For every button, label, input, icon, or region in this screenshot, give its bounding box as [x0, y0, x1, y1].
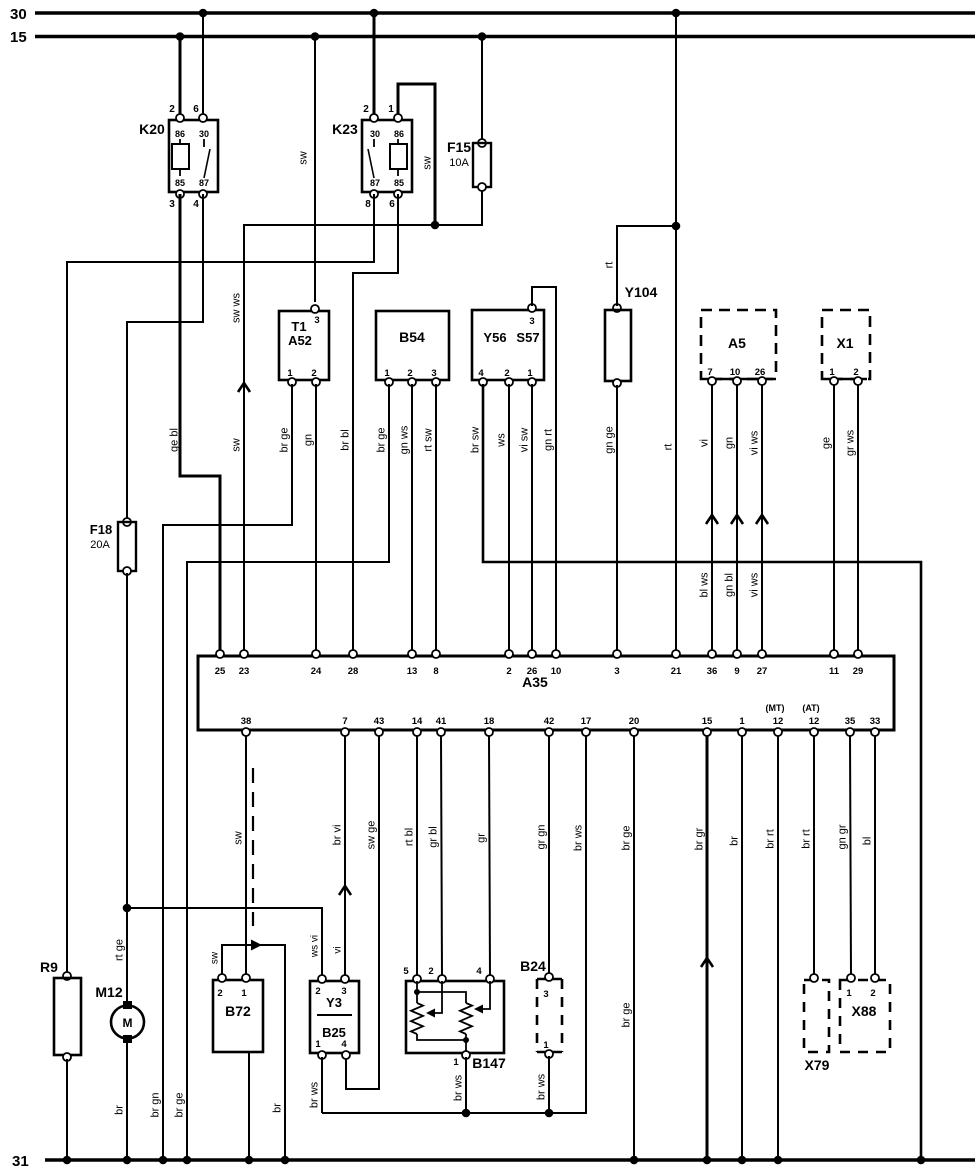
motor M12: [123, 1001, 132, 1009]
svg-text:2: 2: [315, 986, 320, 997]
svg-text:sw: sw: [298, 151, 310, 165]
svg-text:gn bl: gn bl: [724, 573, 736, 597]
B54 pin 2 terminal: [408, 378, 416, 386]
B24 pin 3 terminal: [545, 973, 553, 981]
X1 pin 1 terminal: [830, 377, 838, 385]
relay K20 pin 2 terminal: [176, 114, 184, 122]
svg-text:8: 8: [365, 199, 371, 210]
A35 bottom pin 35: [846, 728, 854, 736]
A35 bottom pin 7: [341, 728, 349, 736]
component Y3 B25 box: [310, 981, 359, 1053]
A35 top pin 24: [312, 650, 320, 658]
wire bus30 to K23 pin 2: [373, 13, 376, 118]
svg-text:br sw: br sw: [470, 427, 482, 453]
svg-text:3: 3: [341, 986, 346, 997]
wire bus30 to K20 pin 6: [202, 13, 204, 118]
svg-text:F18: F18: [90, 522, 112, 537]
Y3 pin 3 terminal: [341, 975, 349, 983]
svg-text:vi ws: vi ws: [749, 572, 761, 597]
B147 pin 4 wiper arrow: [482, 981, 490, 1009]
svg-text:2: 2: [407, 368, 412, 379]
svg-text:ws: ws: [496, 433, 508, 448]
wire br ge B54 pin 1 to bus 31: [187, 384, 389, 1160]
wire ws Y56 pin 2 to A35 pin 2: [508, 384, 510, 653]
sensor B72 box: [213, 980, 263, 1052]
svg-text:B25: B25: [322, 1025, 346, 1040]
wire vi / bl ws A5 pin 7 to A35 pin 36: [711, 385, 713, 653]
svg-text:B72: B72: [225, 1003, 251, 1019]
A35 bottom pin 12: [774, 728, 782, 736]
svg-text:br gr: br gr: [694, 827, 706, 850]
svg-text:br: br: [114, 1105, 126, 1115]
svg-text:br ws: br ws: [309, 1081, 321, 1108]
svg-text:rt ge: rt ge: [114, 939, 126, 961]
svg-text:30: 30: [370, 129, 380, 139]
wire node sw to A35 pin 23: [244, 225, 435, 653]
svg-text:2: 2: [169, 104, 175, 115]
svg-text:43: 43: [374, 716, 385, 727]
B24 pin 1 terminal: [545, 1050, 553, 1058]
connector X88 box: [840, 980, 890, 1052]
arrow up on br gr wire: [701, 958, 713, 967]
svg-text:gr bl: gr bl: [428, 826, 440, 847]
wire br rt A35 pin 12MT to bus 31: [777, 736, 779, 1160]
B147 left resistor: [411, 1003, 423, 1034]
wire gn ge Y104 to A35 pin 3: [616, 385, 618, 653]
svg-text:85: 85: [394, 178, 404, 188]
svg-text:1: 1: [543, 1040, 549, 1051]
A5 pin 26 terminal: [758, 377, 766, 385]
svg-text:ge bl: ge bl: [169, 428, 181, 452]
svg-text:br ws: br ws: [536, 1073, 548, 1100]
arrow up on vi ws wire: [756, 515, 768, 524]
svg-text:2: 2: [428, 966, 433, 977]
svg-text:14: 14: [412, 716, 423, 727]
svg-text:41: 41: [436, 716, 447, 727]
B147 pin 1 terminal: [462, 1051, 470, 1059]
wire rt Y104 top to node rt: [617, 226, 676, 306]
svg-text:1: 1: [453, 1057, 459, 1068]
svg-text:br ws: br ws: [453, 1074, 465, 1101]
wire br ws B147 pin 1 to ground net: [465, 1057, 467, 1113]
svg-text:29: 29: [853, 666, 864, 677]
A35 bottom pin 14: [413, 728, 421, 736]
svg-text:1: 1: [388, 104, 394, 115]
A35 top pin 8: [432, 650, 440, 658]
T1 pin 3 terminal: [311, 305, 319, 313]
svg-text:1: 1: [829, 367, 835, 378]
svg-text:10A: 10A: [449, 157, 469, 169]
wire K23 pin 1 jog to node sw: [398, 84, 435, 225]
connector X79 box: [804, 980, 829, 1052]
svg-text:R9: R9: [40, 959, 58, 975]
svg-text:A52: A52: [288, 333, 312, 348]
B147 resistor bottoms join: [417, 1034, 466, 1040]
svg-text:3: 3: [529, 316, 534, 327]
relay K23 coil: [397, 139, 399, 144]
svg-text:M: M: [123, 1016, 133, 1030]
node F18/M12 junction: [123, 904, 132, 913]
wire sw bus15 to T1 pin 3: [314, 37, 316, 303]
sensor B24 box: [537, 978, 562, 981]
svg-text:2: 2: [363, 104, 369, 115]
A35 top pin 29: [854, 650, 862, 658]
svg-text:sw: sw: [210, 951, 221, 964]
svg-text:86: 86: [175, 129, 185, 139]
B147 right resistor: [460, 1003, 472, 1034]
svg-text:K20: K20: [139, 121, 165, 137]
svg-text:1: 1: [241, 988, 247, 999]
svg-text:gn ws: gn ws: [399, 425, 411, 454]
svg-text:36: 36: [707, 666, 718, 677]
svg-text:gr ws: gr ws: [845, 429, 857, 456]
svg-text:S57: S57: [516, 330, 539, 345]
svg-text:(AT): (AT): [802, 703, 819, 713]
svg-text:27: 27: [757, 666, 768, 677]
wire br ws Y3 pin 1 to ground net: [321, 1057, 323, 1113]
wire rt bl A35 pin 14 to B147 pin 5: [416, 736, 418, 977]
svg-text:2: 2: [311, 368, 316, 379]
svg-text:28: 28: [348, 666, 359, 677]
wire gr ws X1 pin 2 to A35 pin 29: [857, 385, 859, 653]
svg-text:10: 10: [551, 666, 562, 677]
wire bus15 to K20 pin 2: [179, 37, 182, 119]
svg-text:2: 2: [506, 666, 511, 677]
svg-text:gn rt: gn rt: [543, 429, 555, 451]
svg-text:8: 8: [433, 666, 438, 677]
svg-text:X79: X79: [805, 1057, 830, 1073]
X1 pin 2 terminal: [854, 377, 862, 385]
B147 internal wire to right resistor: [417, 992, 466, 1003]
svg-text:gr: gr: [476, 833, 488, 843]
svg-text:br ge: br ge: [174, 1092, 186, 1117]
relay K23 pin 2 terminal: [370, 114, 378, 122]
A35 bottom pin 18: [485, 728, 493, 736]
svg-text:br bl: br bl: [340, 429, 352, 450]
svg-text:12: 12: [809, 716, 820, 727]
wire vi sw Y56 pin 1 to A35 pin 26: [531, 384, 533, 653]
fuse F18: [123, 518, 131, 526]
wire K20 pin 4 to fuse F18: [127, 194, 203, 520]
wire gn / gn bl A5 pin 10 to A35 pin 9: [736, 385, 738, 653]
A35 top pin 9: [733, 650, 741, 658]
wire sw ge A35 pin 43 to Y3 pin 4: [346, 736, 379, 1089]
A35 top pin 23: [240, 650, 248, 658]
wire gr bl A35 pin 41 to B147 pin 2: [441, 736, 442, 977]
wire gr gn A35 pin 42 to B24 pin 3: [548, 736, 550, 977]
wire B72 pin 2 to bus 31: [222, 945, 285, 1160]
wire F15 bottom to node sw: [435, 189, 482, 225]
svg-text:gn ge: gn ge: [604, 426, 616, 454]
relay K20 switch contact: [203, 139, 205, 147]
wire gn T1 pin 2 to A35 pin 24: [315, 384, 317, 653]
svg-text:24: 24: [311, 666, 322, 677]
svg-text:gn gr: gn gr: [837, 824, 849, 849]
svg-text:21: 21: [671, 666, 682, 677]
svg-text:br ge: br ge: [376, 427, 388, 452]
A35 top pin 21: [672, 650, 680, 658]
B72 pin 1 terminal: [242, 974, 250, 982]
A5 pin 7 terminal: [708, 377, 716, 385]
svg-text:vi: vi: [699, 439, 711, 447]
A35 top pin 25: [216, 650, 224, 658]
svg-text:3: 3: [169, 199, 175, 210]
svg-text:br rt: br rt: [801, 829, 813, 849]
svg-text:13: 13: [407, 666, 418, 677]
relay K23 pin 6 terminal: [394, 190, 402, 198]
fuse F15: [478, 139, 486, 147]
svg-text:1: 1: [384, 368, 390, 379]
svg-text:42: 42: [544, 716, 555, 727]
svg-text:rt bl: rt bl: [404, 828, 416, 846]
svg-text:sw: sw: [422, 156, 434, 170]
svg-text:A5: A5: [728, 335, 746, 351]
A35 bottom pin 42: [545, 728, 553, 736]
A35 bottom pin 20: [630, 728, 638, 736]
svg-text:X1: X1: [836, 335, 853, 351]
svg-text:3: 3: [614, 666, 619, 677]
svg-text:bl: bl: [862, 837, 874, 846]
wire bus15 to F15: [481, 37, 483, 142]
svg-text:6: 6: [193, 104, 199, 115]
arrow up on bl ws wire: [706, 515, 718, 524]
svg-text:br ws: br ws: [573, 824, 585, 851]
svg-text:1: 1: [739, 716, 745, 727]
component X1 box: [822, 310, 870, 379]
wire gn ws B54 pin 2 to A35 pin 13: [411, 384, 413, 653]
svg-text:Y56: Y56: [483, 330, 506, 345]
wire br ws B24 pin 1 to ground net: [548, 1056, 550, 1113]
T1 pin 2 terminal: [312, 378, 320, 386]
wire gr A35 pin 18 to B147 pin 4: [489, 736, 490, 977]
svg-text:F15: F15: [447, 139, 471, 155]
A5 pin 10 terminal: [733, 377, 741, 385]
svg-text:3: 3: [431, 368, 436, 379]
wire br vi A35 pin 7 to Y3 pin 3: [344, 736, 346, 977]
Y56 pin 1 terminal: [528, 378, 536, 386]
svg-text:1: 1: [846, 988, 852, 999]
svg-text:38: 38: [241, 716, 252, 727]
svg-text:23: 23: [239, 666, 250, 677]
svg-text:1: 1: [527, 368, 533, 379]
svg-text:sw ws: sw ws: [231, 293, 243, 323]
svg-text:rt sw: rt sw: [423, 428, 435, 451]
wire br ge T1 pin 1 to bus 31: [163, 384, 292, 1160]
svg-text:30: 30: [199, 129, 209, 139]
svg-text:2: 2: [217, 988, 222, 999]
svg-text:B24: B24: [520, 958, 546, 974]
wire ws vi node to Y3 pin 2: [127, 908, 322, 977]
svg-text:1: 1: [315, 1039, 321, 1050]
X88 pin 2 terminal: [871, 974, 879, 982]
svg-text:87: 87: [370, 178, 380, 188]
Y3 pin 2 terminal: [318, 975, 326, 983]
svg-text:rt: rt: [663, 444, 675, 451]
arrow up on br vi wire: [339, 886, 351, 895]
wire br ws A35 pin 17 to ground net: [322, 736, 586, 1113]
Y3 pin 1 terminal: [318, 1051, 326, 1059]
svg-text:17: 17: [581, 716, 592, 727]
svg-text:M12: M12: [95, 984, 122, 1000]
svg-text:26: 26: [527, 666, 538, 677]
svg-text:5: 5: [403, 966, 409, 977]
node rt junction: [672, 222, 681, 231]
wire gn gr A35 pin 35 to X88 pin 1: [850, 736, 851, 976]
wire br A35 pin 1 to bus 31: [741, 736, 743, 1160]
control unit A35 box: [198, 656, 894, 730]
svg-text:vi ws: vi ws: [749, 430, 761, 455]
svg-text:10: 10: [730, 367, 741, 378]
svg-text:4: 4: [193, 199, 199, 210]
arrow up on sw wire: [238, 383, 250, 392]
svg-text:2: 2: [870, 988, 875, 999]
relay K23 box: [362, 120, 412, 192]
wire B72 bottom to bus 31: [248, 1052, 250, 1160]
svg-text:2: 2: [853, 367, 858, 378]
A35 bottom pin 43: [375, 728, 383, 736]
B147 pin 5 terminal: [413, 975, 421, 983]
component Y104 body: [613, 304, 621, 312]
A35 top pin 13: [408, 650, 416, 658]
component A5 box: [701, 310, 776, 379]
svg-text:(MT): (MT): [766, 703, 785, 713]
svg-text:B147: B147: [472, 1055, 506, 1071]
svg-text:gn: gn: [724, 437, 736, 449]
arrow up on gn bl wire: [731, 515, 743, 524]
svg-text:12: 12: [773, 716, 784, 727]
wire ge X1 pin 1 to A35 pin 11: [833, 385, 835, 653]
svg-text:4: 4: [478, 368, 484, 379]
svg-text:K23: K23: [332, 121, 358, 137]
svg-text:B54: B54: [399, 329, 425, 345]
bus 31: [45, 1158, 975, 1161]
wire br M12 to bus 31: [126, 1043, 128, 1160]
shield dashed line of sw wire: [252, 768, 254, 926]
B54 pin 3 terminal: [432, 378, 440, 386]
svg-text:br: br: [729, 836, 741, 846]
svg-text:4: 4: [341, 1039, 347, 1050]
T1 pin 1 terminal: [288, 378, 296, 386]
wire rt bus30 to A35 pin 21: [675, 13, 677, 653]
svg-text:br: br: [272, 1103, 284, 1113]
wire K23 pin 8 to R9: [67, 194, 374, 974]
relay K20 coil: [179, 139, 181, 144]
wire ge bl K20 pin 3 to A35 pin 25: [180, 194, 220, 653]
svg-text:br ge: br ge: [621, 825, 633, 850]
A35 bottom pin 38: [242, 728, 250, 736]
svg-text:9: 9: [734, 666, 739, 677]
B147 pin 2 terminal: [438, 975, 446, 983]
svg-text:vi sw: vi sw: [519, 428, 531, 453]
B147 internal node: [416, 981, 418, 1003]
A35 bottom pin 17: [582, 728, 590, 736]
relay K23 switch contact: [373, 139, 375, 147]
svg-text:26: 26: [755, 367, 766, 378]
wire bl A35 pin 33 to X88 pin 2: [874, 736, 876, 976]
wire sw A35 pin 38 to B72 pin 1: [245, 736, 247, 977]
component B54 box: [376, 311, 449, 380]
svg-text:86: 86: [394, 129, 404, 139]
component Y56 S57 box: [472, 310, 544, 380]
svg-text:vi: vi: [333, 946, 344, 953]
relay K23 pin 1 terminal: [394, 114, 402, 122]
svg-text:bl ws: bl ws: [699, 572, 711, 598]
svg-text:3: 3: [314, 315, 319, 326]
svg-text:br gn: br gn: [150, 1092, 162, 1117]
svg-text:87: 87: [199, 178, 209, 188]
svg-text:br rt: br rt: [765, 829, 777, 849]
relay K20 pin 4 terminal: [199, 190, 207, 198]
wire br gr A35 pin 15 to bus 31: [706, 736, 709, 1160]
svg-text:25: 25: [215, 666, 226, 677]
svg-text:sw: sw: [233, 831, 245, 845]
node sw junction: [431, 221, 440, 230]
wire gn rt S57 pin 3 to A35 pin 10: [532, 287, 556, 653]
A35 top pin 36: [708, 650, 716, 658]
svg-text:br ge: br ge: [279, 427, 291, 452]
wire F18 to M12: [126, 573, 128, 1003]
svg-text:7: 7: [342, 716, 347, 727]
svg-text:85: 85: [175, 178, 185, 188]
svg-text:gn: gn: [303, 434, 315, 446]
B147 pin 2 wiper arrow: [434, 981, 442, 1013]
svg-text:6: 6: [389, 199, 395, 210]
svg-text:33: 33: [870, 716, 881, 727]
svg-text:gr gn: gr gn: [536, 824, 548, 849]
svg-text:4: 4: [476, 966, 482, 977]
wire br bl K23 pin 6 to A35 pin 28: [353, 194, 398, 653]
X79 terminal: [810, 974, 818, 982]
svg-text:br ge: br ge: [621, 1002, 633, 1027]
A35 bottom pin 15: [703, 728, 711, 736]
A35 bottom pin 41: [437, 728, 445, 736]
svg-text:Y104: Y104: [625, 284, 658, 300]
B72 pin 2 terminal: [218, 974, 226, 982]
svg-text:11: 11: [829, 666, 840, 677]
Y56 pin 4 terminal: [479, 378, 487, 386]
svg-text:20A: 20A: [90, 539, 110, 551]
B54 pin 1 terminal: [385, 378, 393, 386]
A35 top pin 3: [613, 650, 621, 658]
svg-text:3: 3: [543, 989, 548, 1000]
shield arrow into ground jog: [251, 940, 262, 951]
A35 top pin 28: [349, 650, 357, 658]
A35 top pin 2: [505, 650, 513, 658]
Y3 pin 4 terminal: [342, 1051, 350, 1059]
B147 pin 4 terminal: [486, 975, 494, 983]
svg-text:ge: ge: [821, 437, 833, 449]
Y56 pin 3 terminal: [528, 304, 536, 312]
A35 top pin 11: [830, 650, 838, 658]
wire rt sw B54 pin 3 to A35 pin 8: [435, 384, 437, 653]
relay K20 box: [169, 120, 218, 192]
A35 top pin 10: [552, 650, 560, 658]
svg-text:18: 18: [484, 716, 495, 727]
svg-text:35: 35: [845, 716, 856, 727]
bus 15: [35, 35, 975, 38]
wire br rt A35 pin 12AT to X79: [813, 736, 815, 976]
svg-text:ws vi: ws vi: [310, 935, 321, 958]
wire br sw Y56 pin 4 to bus 31: [483, 384, 921, 1160]
svg-text:7: 7: [707, 367, 712, 378]
resistor R9: [63, 972, 71, 980]
A35 top pin 27: [758, 650, 766, 658]
svg-text:2: 2: [504, 368, 509, 379]
svg-text:1: 1: [287, 368, 293, 379]
svg-text:rt: rt: [604, 262, 616, 269]
relay K20 pin 3 terminal: [176, 190, 184, 198]
wire br ge A35 pin 20 to bus 31: [633, 736, 635, 1160]
